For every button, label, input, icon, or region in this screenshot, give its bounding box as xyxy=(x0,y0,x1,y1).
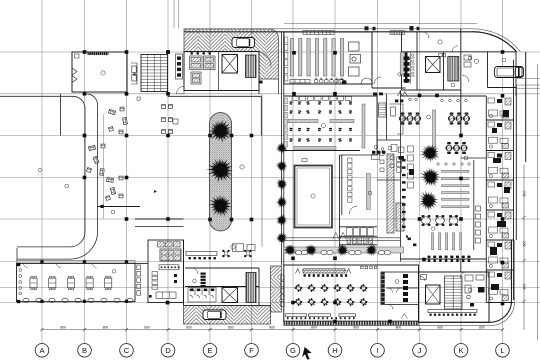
suite fixtures left xyxy=(464,55,472,67)
toilets column dark xyxy=(403,274,408,302)
tag circle restaurant xyxy=(464,156,468,160)
reception low cell row xyxy=(156,292,176,298)
core corridor walls xyxy=(184,240,271,306)
cafe long table top xyxy=(302,269,348,273)
cafe benches south xyxy=(286,314,356,317)
library reading tables xyxy=(349,42,361,76)
east room small chairs xyxy=(380,152,394,171)
vertical gray bars south xyxy=(432,233,462,250)
svg-text:800: 800 xyxy=(228,326,234,330)
SE kerb line xyxy=(284,240,515,325)
SW service dark marks xyxy=(373,93,404,160)
swimming pool xyxy=(295,166,333,228)
palm tree P2 xyxy=(203,153,237,187)
toilet stalls row xyxy=(188,288,216,303)
svg-text:G: G xyxy=(290,346,296,355)
service rooms fixtures xyxy=(488,98,511,301)
shrub ovals xyxy=(295,250,390,254)
core shaft striped xyxy=(246,273,256,303)
WC dark spine xyxy=(405,53,408,84)
hall double door M xyxy=(398,92,408,97)
J-K rooms walls xyxy=(402,29,461,94)
SW service room fixtures xyxy=(372,145,405,160)
top-left room B-C xyxy=(72,52,127,92)
WC stall cells xyxy=(347,228,374,236)
svg-text:800: 800 xyxy=(269,326,275,330)
WC fixtures column at J xyxy=(404,57,410,83)
svg-text:800: 800 xyxy=(479,326,485,330)
dark glyph in cells column xyxy=(409,169,414,175)
reception bar with dots xyxy=(159,265,179,270)
svg-text:D: D xyxy=(165,346,171,355)
svg-text:L: L xyxy=(500,346,504,355)
cells NE of strip xyxy=(397,157,402,172)
svg-text:800: 800 xyxy=(144,326,150,330)
lockers row on top wall xyxy=(303,30,334,34)
oval tables row xyxy=(422,215,458,226)
svg-text:K: K xyxy=(458,346,463,355)
west wall shelf cells xyxy=(285,37,288,81)
lobby side table xyxy=(173,119,178,124)
restaurant west chairs column xyxy=(402,159,406,228)
open hall circled tag xyxy=(474,59,478,63)
restaurant gray service bar xyxy=(433,110,436,152)
annex door arcs xyxy=(420,272,466,281)
bar zone furnishings xyxy=(233,244,256,252)
annex upper fixtures xyxy=(421,275,485,299)
inner wall below room xyxy=(60,94,62,136)
table stacks east lower cluster xyxy=(446,142,453,154)
tag circle bar xyxy=(231,245,235,249)
east rooms small fixtures xyxy=(395,100,403,103)
bottom dimension line xyxy=(42,329,503,331)
kerb lines to right edge xyxy=(517,78,540,80)
svg-text:I: I xyxy=(376,346,378,355)
veranda door swings on band xyxy=(24,263,97,267)
room tag circle xyxy=(101,71,105,75)
book shelf bars xyxy=(290,39,343,77)
veranda ring chairs column xyxy=(19,269,22,295)
structural column dots xyxy=(83,50,505,323)
svg-text:F: F xyxy=(249,346,254,355)
curved entrance walkway west/inner line xyxy=(0,96,85,247)
pool east block walls xyxy=(340,155,378,248)
veranda top gray band xyxy=(17,260,136,263)
small cabinet in room xyxy=(75,54,80,58)
corridor tag circle xyxy=(193,279,197,283)
hatched strip east xyxy=(387,154,394,233)
walkway south lines xyxy=(284,238,401,241)
parking hatch band SW (herringbone) xyxy=(184,306,271,325)
tall cabinet xyxy=(400,52,404,75)
ramp strip up to cafe (herringbone) xyxy=(271,266,282,312)
elevator 2 xyxy=(426,57,441,73)
tag circle east room xyxy=(388,146,392,150)
palm tree P1 xyxy=(208,119,233,143)
suite door arc xyxy=(462,75,469,82)
grid bubbles A-L xyxy=(35,344,509,358)
WC tag circle xyxy=(398,73,401,76)
cafe outline xyxy=(284,265,419,321)
toilet tag xyxy=(395,280,399,284)
central planter (stadium) xyxy=(210,113,232,232)
palm row trees xyxy=(282,243,297,258)
sofa room wall y206 xyxy=(98,205,141,208)
K-line room walls xyxy=(461,158,487,272)
lobby north wall xyxy=(168,96,262,135)
veranda tables xyxy=(30,276,37,290)
cafe toilet block xyxy=(381,272,419,305)
car on ramp xyxy=(232,38,255,48)
dimension texts 800 xyxy=(60,326,484,330)
library south chairs xyxy=(315,78,344,83)
palm tree P3 xyxy=(204,189,237,222)
mouse cursor xyxy=(302,347,312,360)
library room outline xyxy=(284,32,372,84)
svg-text:H: H xyxy=(332,346,337,355)
corridor dark fixture column xyxy=(201,273,206,288)
west palm colonnade xyxy=(276,142,288,153)
dining chairs grid xyxy=(289,101,352,142)
svg-text:B: B xyxy=(82,346,87,355)
AHU unit 1 xyxy=(190,56,203,70)
dark dashed bar on its top wall xyxy=(88,52,109,55)
machine room small dark fittings xyxy=(191,52,211,54)
tag circle L xyxy=(502,58,506,62)
small room between C and stair xyxy=(131,63,137,84)
radiator hatched xyxy=(396,203,404,231)
west corridor double wall of centre wing xyxy=(281,32,283,265)
west small glyphs xyxy=(406,236,416,247)
top-right suite walls xyxy=(461,52,517,96)
bar stool row south xyxy=(428,256,471,262)
rack room between stair and D xyxy=(176,54,183,79)
lounge east boundary line xyxy=(103,114,105,219)
annex elevator xyxy=(426,285,441,304)
lounge sofa cluster 1 xyxy=(108,107,127,134)
reception desk with cells xyxy=(160,249,181,261)
library bench SW xyxy=(290,80,310,83)
dark dots top of block xyxy=(372,151,385,154)
dining hall walls xyxy=(284,94,377,155)
svg-text:800: 800 xyxy=(311,326,317,330)
small circles row mid restaurant xyxy=(437,163,470,165)
corridor door arcs xyxy=(189,268,198,292)
svg-text:800: 800 xyxy=(60,326,66,330)
svg-text:800: 800 xyxy=(103,326,109,330)
armchair column at D lounge xyxy=(162,105,173,134)
emergency stair block C-D xyxy=(141,55,168,92)
block tag circle xyxy=(368,191,372,195)
cafe west wall cells xyxy=(281,275,285,306)
pool inner line xyxy=(297,168,330,225)
room east of library xyxy=(372,32,406,90)
inner ramp corner arc xyxy=(256,52,271,67)
locker column xyxy=(348,158,352,202)
svg-text:800: 800 xyxy=(437,326,443,330)
corridor door Ms xyxy=(333,206,358,239)
table stacks east upper cluster xyxy=(448,113,455,125)
veranda tag circle xyxy=(112,270,116,274)
small circles top of restaurant xyxy=(409,98,468,102)
AHU unit 2 xyxy=(204,56,216,70)
svg-text:800: 800 xyxy=(523,191,527,197)
hatched driveway ramp band (top, L-shaped, herringbone) xyxy=(184,29,279,79)
veranda corner columns xyxy=(17,260,128,303)
north facade canopy line xyxy=(284,22,477,24)
right dimension line xyxy=(522,165,525,330)
hall tag circle xyxy=(322,124,326,128)
annex tag xyxy=(468,288,472,292)
hall west wall cells xyxy=(284,98,287,147)
toilet door arcs xyxy=(388,288,407,319)
lounge sofa cluster 2 xyxy=(86,144,105,175)
lobby tag circle xyxy=(240,165,244,169)
cafe top chair row xyxy=(304,274,348,277)
top room door arcs xyxy=(423,32,458,52)
sink cells top-left of J block xyxy=(401,30,406,32)
annex walls xyxy=(419,272,490,322)
path-veranda connector xyxy=(16,248,18,263)
reception hatched bench row xyxy=(158,242,181,247)
small cells beside elevator xyxy=(439,54,446,57)
big palm column (3 trees) xyxy=(419,142,441,163)
south lobby double wall xyxy=(135,219,184,227)
cafe dark south wall band xyxy=(284,321,419,325)
pool deck edge small mark xyxy=(302,159,307,162)
pool tag xyxy=(311,194,315,198)
svg-text:C: C xyxy=(124,346,130,355)
svg-text:E: E xyxy=(207,346,212,355)
annex stair xyxy=(445,276,463,309)
striped shaft 2 xyxy=(448,57,459,82)
svg-text:800: 800 xyxy=(353,326,359,330)
dark fittings service strip xyxy=(490,110,510,290)
dark dashed partition xyxy=(382,273,385,305)
room number circle xyxy=(451,83,455,87)
lobby entry door arc xyxy=(177,86,185,94)
cafe round tables xyxy=(295,284,303,292)
top wall small squares left xyxy=(361,266,377,269)
rooftop vents xyxy=(365,26,420,31)
corridor line x262 xyxy=(261,94,263,247)
stair east of hall xyxy=(379,103,387,117)
annex dark fixtures xyxy=(470,287,485,307)
connecting wall veranda-reception xyxy=(135,262,148,264)
glyph near stair room xyxy=(154,190,157,193)
core elevator xyxy=(222,288,238,303)
sinks row top of room xyxy=(390,31,405,35)
annex bar counter xyxy=(428,310,477,316)
exterior top wall of north wing xyxy=(184,32,517,52)
elevator xyxy=(222,55,238,74)
palm row planter band xyxy=(284,247,404,253)
WC stall walls xyxy=(406,52,418,84)
door arc xyxy=(374,77,381,84)
vent shaft (striped) xyxy=(246,55,257,78)
veranda oval chairs row xyxy=(23,298,133,302)
svg-text:800: 800 xyxy=(523,284,527,290)
column grid horizontal lines rows 1-8 xyxy=(0,52,540,303)
svg-text:J: J xyxy=(418,346,422,355)
tag circle between clusters xyxy=(427,115,431,119)
lounge sofa cluster 3 xyxy=(105,176,123,200)
sinks right of WC xyxy=(412,54,414,74)
machine room block walls xyxy=(184,52,259,91)
dim stub above D xyxy=(174,0,179,29)
urinal ticks xyxy=(347,238,373,244)
four-dot table clusters xyxy=(222,250,251,258)
svg-text:800: 800 xyxy=(523,241,527,247)
column at reception corner xyxy=(166,301,170,305)
horizontal serving tables xyxy=(442,170,470,207)
car in parking band xyxy=(203,310,226,320)
bar counter with stools xyxy=(186,252,217,260)
dark door leaf marks xyxy=(260,81,347,85)
chairs column K xyxy=(474,160,481,250)
curved entrance walkway east/outer line xyxy=(17,94,98,259)
tag circle south restaurant xyxy=(432,227,436,231)
table stacks west cluster xyxy=(399,113,406,125)
machine room inner wall xyxy=(218,52,220,91)
cafe long table M doors xyxy=(296,269,351,274)
hall counters gray xyxy=(288,104,365,149)
svg-text:800: 800 xyxy=(186,326,192,330)
svg-text:800: 800 xyxy=(396,326,402,330)
far right dimension line xyxy=(537,64,539,340)
reception small marks xyxy=(149,274,177,304)
car in porte-cochere xyxy=(495,67,524,78)
central gray bar xyxy=(366,174,370,210)
bench column west of reception xyxy=(137,265,141,295)
door leaves on west wall xyxy=(72,68,77,83)
reception side stack xyxy=(152,272,158,290)
AHU lower coil units xyxy=(191,72,201,84)
small table mark xyxy=(137,97,140,100)
lounge tag circles xyxy=(38,168,115,214)
desk in east room xyxy=(389,104,403,134)
veranda outline xyxy=(17,263,136,301)
east rooms walls xyxy=(377,90,401,262)
bench leg ticks xyxy=(287,317,355,319)
top room circled tag xyxy=(438,40,442,44)
SE rounded building corner xyxy=(419,240,512,322)
library entry double doors xyxy=(336,78,373,84)
outer kerb line top xyxy=(184,29,521,52)
buffet cells on hall top xyxy=(292,97,351,101)
K-line cells column xyxy=(408,146,414,188)
restaurant walls xyxy=(401,94,487,259)
reception block outline xyxy=(148,240,184,303)
service strip walls xyxy=(486,60,516,303)
